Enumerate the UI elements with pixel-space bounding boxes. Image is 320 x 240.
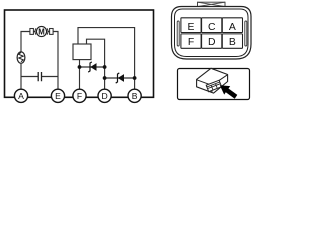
motor M1 choke left [30,29,34,35]
wire upper diode row [80,66,105,68]
wire box top-left lead to B column [78,28,135,90]
connector icon pin block [206,80,221,91]
pin cell C [202,18,222,33]
terminal B [128,89,141,102]
connector icon top-face edge [197,75,228,86]
svg-text:D: D [208,37,216,48]
svg-text:B: B [132,91,138,101]
svg-text:A: A [18,91,24,101]
pin cell F [181,34,201,48]
motor M1 choke right [50,29,54,35]
connector icon body silhouette [197,68,228,93]
svg-text:C: C [208,22,216,33]
wire A column [21,32,30,90]
connector housing inner outline [175,9,249,57]
relay box [73,44,91,60]
capacitor C1 plates [38,72,41,81]
wire F column [79,60,81,90]
thermal breaker S1 [17,52,25,63]
svg-text:E: E [55,91,61,101]
zener diode ZD1 triangle [90,63,96,71]
icon frame box [178,69,250,100]
zener diode ZD2 cathode bar [116,73,120,83]
connector side slot left [177,21,179,46]
terminal D [98,89,111,102]
wire box top-right lead to D column [87,39,105,89]
zener diode ZD1 cathode bar [88,62,92,72]
connector icon front edge [211,85,213,93]
svg-text:A: A [229,22,236,33]
pin cell B [222,34,242,48]
wire E column [53,32,58,90]
wire capacitor branch left [21,76,38,78]
motor brush right [46,28,49,34]
connector lock tab [198,2,226,6]
pin cell A [222,18,242,33]
connector side slot right [245,21,247,46]
thermal breaker zigzag element [19,52,24,61]
svg-text:D: D [101,91,107,101]
pin cell D [202,34,222,48]
wire capacitor branch right [42,76,59,78]
motor brush left [34,28,37,34]
svg-text:M: M [38,27,45,36]
svg-text:F: F [188,37,194,48]
terminal F [73,89,86,102]
terminal E [51,89,64,102]
terminal A [14,89,27,102]
svg-text:B: B [229,37,236,48]
component outline box [5,10,154,97]
wire lower diode row [105,77,135,79]
pin cell E [181,18,201,33]
connector housing outer outline [172,7,252,60]
junction dot D-lower [103,76,107,80]
junction dot D-upper [103,65,107,69]
motor M1 circle [36,26,46,36]
junction dot F-row [78,65,82,69]
wire choke to brush [33,31,49,33]
svg-text:F: F [77,91,82,101]
junction dot B-row [133,76,137,80]
pointer arrow [220,85,238,99]
zener diode ZD2 triangle [118,74,124,82]
svg-text:E: E [188,22,195,33]
